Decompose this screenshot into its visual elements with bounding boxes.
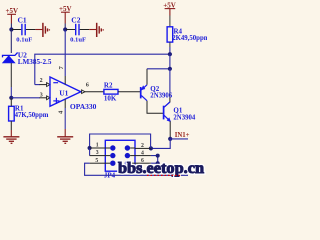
svg-text:Q1: Q1	[173, 107, 182, 115]
pin R4 bottom lead	[169, 42, 171, 47]
wire C2 right pin	[80, 29, 90, 31]
svg-text:OPA330: OPA330	[70, 102, 97, 111]
junction dot IN1+	[168, 137, 172, 141]
capacitor C2	[70, 15, 86, 43]
power +5V P2	[59, 5, 72, 24]
svg-text:47K,50ppm: 47K,50ppm	[15, 112, 49, 119]
wire junction to C2 left pin	[65, 29, 75, 31]
svg-text:1: 1	[96, 143, 99, 149]
pin JP4-1	[90, 147, 106, 149]
svg-text:10K: 10K	[104, 95, 117, 103]
svg-text:4: 4	[141, 150, 144, 156]
pin R1 bottom	[10, 121, 12, 130]
wire feedback to pin 2	[35, 84, 40, 86]
svg-text:3: 3	[96, 150, 99, 156]
connector JP4	[104, 140, 135, 179]
svg-text:IN1+: IN1+	[175, 132, 190, 139]
pin JP4-2	[135, 147, 151, 149]
power +5V P1	[6, 7, 19, 24]
wire diode to R1 junction	[10, 63, 12, 87]
resistor R1	[9, 105, 49, 121]
pin 7 lead	[64, 76, 66, 84]
wire R4 to junction	[169, 47, 171, 54]
pin 4 lead	[64, 99, 66, 108]
pin JP4-6	[135, 162, 151, 164]
svg-text:2K49,50ppm: 2K49,50ppm	[172, 35, 207, 42]
svg-text:C2: C2	[71, 15, 80, 24]
pin Q2 collector lead	[147, 101, 163, 114]
wire left rail upper segment	[10, 30, 12, 54]
wire pin4 drop	[151, 156, 158, 176]
transistor Q1 2N3904	[164, 102, 196, 122]
svg-text:2: 2	[141, 143, 144, 149]
wire rail to Q1 collector	[169, 69, 171, 98]
pin R1 top	[10, 98, 12, 107]
junction dot pin6	[156, 161, 160, 165]
pin R4 top lead	[169, 16, 171, 27]
svg-text:C1: C1	[18, 15, 27, 24]
resistor R4	[167, 27, 210, 42]
junction dot B2	[168, 67, 172, 71]
pin Q2 emitter lead	[146, 69, 148, 85]
junction dot pin4	[156, 154, 160, 158]
junction dot JP pin1	[88, 146, 92, 150]
wire +5V to C1 junction	[10, 24, 12, 30]
watermark bbs.eetop.cn	[118, 160, 204, 177]
svg-text:6: 6	[86, 82, 89, 88]
wire +5V to C2 junction	[64, 24, 66, 30]
wire IN1+ stub	[170, 138, 188, 140]
power +5V P3	[163, 1, 176, 15]
wire JP pin1 to pin3 strap	[89, 148, 91, 156]
pin JP4-4	[135, 155, 151, 157]
pin JP4-3	[90, 155, 106, 157]
wire op-amp pin 7 V+	[64, 30, 66, 77]
ground for C2 (rotated earth)	[89, 23, 103, 37]
pin Q1 collector lead	[164, 98, 170, 108]
pin 3 lead	[40, 97, 47, 99]
resistor R2	[104, 81, 118, 102]
capacitor C1	[16, 15, 32, 43]
wire feedback top	[35, 54, 170, 84]
wire Q1 emitter down to pin 2 row	[151, 139, 170, 149]
svg-text:2N3904: 2N3904	[173, 115, 196, 122]
ground under R1	[3, 130, 19, 143]
ground for C1 (rotated earth)	[35, 23, 49, 37]
wire pin 4 to ground	[64, 108, 66, 129]
junction dot C2pin	[149, 146, 153, 150]
wire pin6 join	[151, 162, 158, 164]
wire R2 to Q2 base	[118, 91, 140, 93]
wire C1 right pin	[26, 29, 36, 31]
transistor Q2 2N3906	[141, 85, 173, 101]
svg-text:3: 3	[40, 92, 43, 98]
svg-text:0.1uF: 0.1uF	[16, 37, 32, 44]
svg-text:U1: U1	[59, 88, 68, 97]
wire over connector top	[90, 134, 151, 148]
junction dot A1	[9, 27, 13, 31]
wire junction to C1 left pin	[11, 29, 21, 31]
wire junction to op-amp pin 3	[11, 97, 40, 99]
junction dot B1	[168, 52, 172, 56]
wire segment blue	[10, 87, 12, 98]
svg-text:0.1uF: 0.1uF	[70, 37, 86, 44]
pin 6 arrow	[82, 90, 85, 94]
wire pin5 loop	[85, 163, 188, 175]
pin 2 lead	[40, 84, 47, 86]
ground under op-amp	[57, 129, 73, 143]
pin 6 lead to R2	[85, 91, 104, 93]
diode U2 LM385-2.5	[3, 50, 52, 65]
pin Q1 emitter lead	[169, 121, 171, 139]
pin JP4-5	[90, 162, 106, 164]
op-amp U1 OPA330	[50, 77, 97, 111]
svg-text:R2: R2	[104, 81, 113, 89]
junction dot bottom bus	[171, 173, 175, 177]
junction dot A2	[63, 27, 67, 31]
junction dot A3	[9, 96, 13, 100]
svg-text:2: 2	[40, 78, 43, 84]
pin 3 arrow	[47, 96, 50, 100]
pin 2 arrow	[47, 83, 50, 87]
wire Q2 emitter to rail	[147, 68, 170, 70]
svg-text:bbs.eetop.cn: bbs.eetop.cn	[118, 160, 204, 177]
svg-text:5: 5	[95, 158, 98, 164]
wire rail junction to junction	[169, 54, 171, 69]
